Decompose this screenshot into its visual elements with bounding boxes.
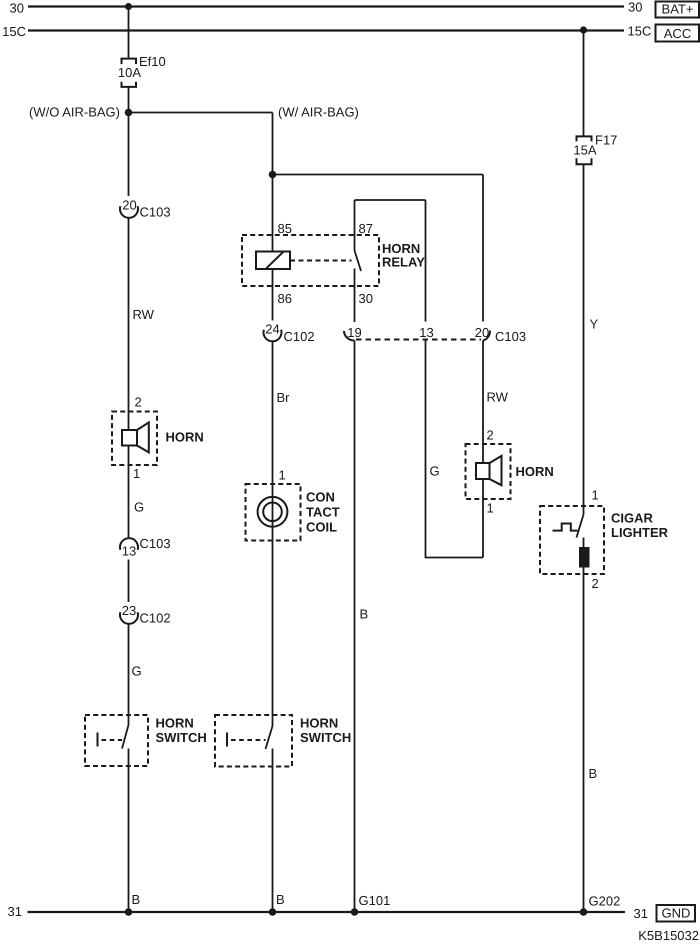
svg-text:G202: G202	[589, 894, 621, 909]
svg-text:19: 19	[347, 325, 361, 340]
svg-text:(W/ AIR-BAG): (W/ AIR-BAG)	[278, 105, 359, 120]
svg-text:31: 31	[634, 906, 648, 921]
svg-text:(W/O AIR-BAG): (W/O AIR-BAG)	[29, 105, 120, 120]
svg-text:86: 86	[278, 291, 292, 306]
svg-text:C103: C103	[495, 329, 526, 344]
svg-text:G: G	[134, 500, 144, 515]
svg-text:1: 1	[592, 488, 599, 503]
svg-text:C103: C103	[140, 536, 171, 551]
svg-text:24: 24	[265, 322, 279, 337]
svg-text:10A: 10A	[118, 65, 141, 80]
svg-text:G: G	[132, 664, 142, 679]
svg-text:G101: G101	[359, 893, 391, 908]
svg-text:C102: C102	[284, 329, 315, 344]
svg-text:Ef10: Ef10	[139, 54, 166, 69]
svg-text:87: 87	[359, 221, 373, 236]
svg-text:30: 30	[10, 1, 24, 16]
svg-text:ACC: ACC	[664, 26, 691, 41]
svg-text:31: 31	[8, 904, 22, 919]
svg-text:30: 30	[359, 291, 373, 306]
svg-text:Y: Y	[590, 317, 599, 332]
svg-text:CIGAR: CIGAR	[611, 511, 654, 526]
svg-text:2: 2	[487, 428, 494, 443]
svg-text:B: B	[276, 892, 285, 907]
svg-text:HORN: HORN	[516, 464, 554, 479]
svg-text:1: 1	[133, 466, 140, 481]
svg-text:RW: RW	[133, 307, 155, 322]
svg-text:SWITCH: SWITCH	[300, 730, 351, 745]
svg-text:Br: Br	[277, 390, 291, 405]
svg-text:SWITCH: SWITCH	[156, 730, 207, 745]
svg-text:RW: RW	[487, 390, 509, 405]
svg-text:15A: 15A	[573, 143, 596, 158]
svg-text:LIGHTER: LIGHTER	[611, 525, 669, 540]
svg-text:20: 20	[122, 198, 136, 213]
svg-text:2: 2	[592, 576, 599, 591]
svg-text:20: 20	[475, 325, 489, 340]
svg-text:23: 23	[122, 603, 136, 618]
svg-text:B: B	[132, 892, 141, 907]
svg-text:B: B	[360, 607, 369, 622]
svg-text:HORN: HORN	[166, 430, 204, 445]
svg-text:1: 1	[279, 468, 286, 483]
svg-text:85: 85	[278, 221, 292, 236]
svg-text:2: 2	[135, 395, 142, 410]
svg-text:G: G	[430, 464, 440, 479]
svg-text:B: B	[589, 766, 598, 781]
svg-text:BAT+: BAT+	[662, 2, 694, 17]
svg-text:HORN: HORN	[156, 716, 194, 731]
svg-text:CON: CON	[306, 490, 335, 505]
svg-text:13: 13	[419, 325, 433, 340]
svg-text:RELAY: RELAY	[382, 255, 425, 270]
svg-text:K5B15032: K5B15032	[638, 928, 699, 943]
svg-text:F17: F17	[595, 133, 617, 148]
svg-text:C102: C102	[140, 611, 171, 626]
svg-text:30: 30	[628, 0, 642, 15]
svg-text:HORN: HORN	[300, 716, 338, 731]
svg-text:C103: C103	[140, 205, 171, 220]
svg-text:13: 13	[122, 544, 136, 559]
svg-text:15C: 15C	[628, 24, 652, 39]
svg-text:COIL: COIL	[306, 520, 337, 535]
svg-text:1: 1	[487, 501, 494, 516]
svg-text:TACT: TACT	[306, 505, 340, 520]
svg-text:GND: GND	[662, 906, 691, 921]
svg-text:15C: 15C	[2, 24, 26, 39]
